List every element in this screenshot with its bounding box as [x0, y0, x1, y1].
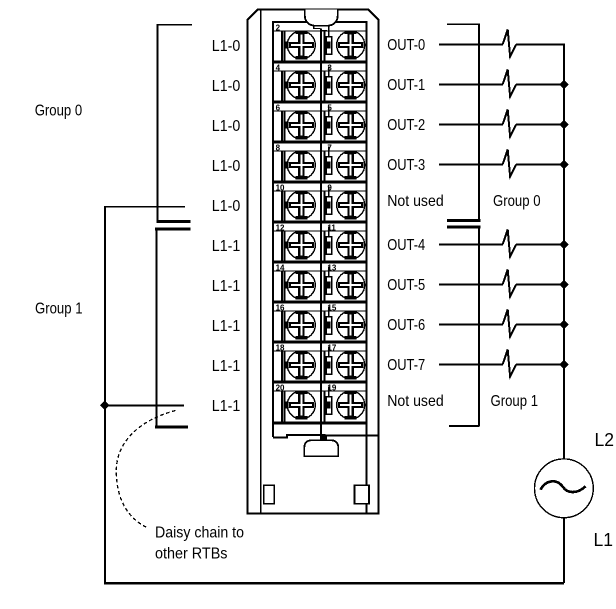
terminal row 6 separators — [273, 222, 366, 231]
wire load 2 to bus — [516, 124, 565, 126]
group 1 right bracket — [447, 227, 481, 426]
svg-text:L1-0: L1-0 — [212, 118, 241, 135]
svg-text:18: 18 — [276, 343, 285, 352]
group 0 right bracket — [447, 23, 481, 220]
bottom dome tab — [304, 440, 338, 456]
svg-text:L1-0: L1-0 — [212, 38, 241, 55]
row 7 left clamp — [282, 271, 287, 302]
row 1 right clamp — [325, 27, 332, 63]
AC sine wave — [541, 481, 586, 492]
screw terminal 11 — [337, 230, 365, 259]
wire OUT-6 — [439, 324, 503, 326]
load L4 squiggle — [503, 230, 516, 257]
svg-text:L1-0: L1-0 — [212, 158, 241, 175]
wire load 6 to bus — [516, 324, 565, 326]
terminal row 1 separators — [273, 30, 366, 32]
screw terminal 6 — [287, 110, 315, 139]
bus junction dot row 7 — [559, 280, 568, 289]
row 3 left clamp — [282, 111, 287, 142]
load L2 squiggle — [503, 110, 516, 137]
keying arch notch at top — [305, 9, 338, 25]
svg-text:12: 12 — [276, 223, 285, 232]
bottom return wire — [104, 582, 564, 585]
left mounting foot — [264, 485, 275, 503]
svg-text:7: 7 — [327, 143, 332, 152]
row 1 left clamp — [282, 31, 287, 62]
svg-text:3: 3 — [327, 63, 332, 72]
svg-text:OUT-7: OUT-7 — [387, 357, 425, 374]
terminal row 10 separators — [273, 382, 366, 391]
svg-text:other RTBs: other RTBs — [155, 546, 228, 563]
wire load 4 to bus — [516, 244, 565, 246]
load L5 squiggle — [503, 270, 516, 297]
row 4 left clamp — [282, 151, 287, 182]
screw terminal 9 — [337, 190, 365, 219]
svg-text:L1: L1 — [594, 530, 614, 550]
row 6 right clamp — [325, 227, 332, 263]
svg-text:Daisy chain to: Daisy chain to — [155, 525, 244, 542]
row 10 right clamp — [325, 387, 332, 423]
svg-text:5: 5 — [327, 103, 332, 112]
screw terminal 3 — [337, 70, 365, 99]
svg-text:Group 0: Group 0 — [493, 193, 541, 210]
terminal row 2 separators — [273, 62, 366, 71]
bus junction dot row 9 — [559, 360, 568, 369]
screw terminal 7 — [337, 150, 365, 179]
svg-text:OUT-2: OUT-2 — [387, 117, 425, 134]
svg-text:L1-1: L1-1 — [212, 398, 241, 415]
svg-text:L1-0: L1-0 — [212, 198, 241, 215]
daisy chain arc — [116, 411, 175, 528]
terminal row 5 separators — [273, 182, 366, 191]
wire OUT-5 — [439, 284, 503, 286]
svg-text:L2: L2 — [595, 430, 615, 450]
svg-text:8: 8 — [276, 143, 281, 152]
divider foot blob — [320, 436, 327, 440]
svg-text:OUT-6: OUT-6 — [387, 317, 425, 334]
svg-text:20: 20 — [276, 383, 285, 392]
load L3 squiggle — [503, 150, 516, 177]
wire row 10 L1-1 — [104, 404, 184, 406]
row 9 left clamp — [282, 351, 287, 382]
bus junction dot row 2 — [559, 80, 568, 89]
svg-text:Group 1: Group 1 — [35, 301, 83, 318]
screw terminal 10 — [287, 190, 315, 219]
row 5 left clamp — [282, 191, 287, 222]
screw terminal 17 — [337, 350, 365, 379]
svg-text:Not used: Not used — [387, 393, 444, 410]
svg-text:L1-1: L1-1 — [212, 238, 241, 255]
terminal row 4 separators — [273, 142, 366, 151]
svg-text:L1-1: L1-1 — [212, 278, 241, 295]
screw terminal 19 — [337, 390, 365, 419]
screw terminal 14 — [287, 270, 315, 299]
load L1 squiggle — [503, 70, 516, 97]
group 0 left bracket — [156, 24, 192, 222]
row 10 left clamp — [282, 391, 287, 422]
svg-text:L1-0: L1-0 — [212, 78, 241, 95]
bus junction dot row 8 — [559, 320, 568, 329]
wire OUT-0 — [439, 44, 503, 46]
daisy chain label — [155, 525, 244, 563]
row 2 left clamp — [282, 71, 287, 102]
bus junction dot row 6 — [559, 240, 568, 249]
terminal row 9 separators — [273, 342, 366, 351]
screw terminal 4 — [287, 70, 315, 99]
screw terminal 20 — [287, 390, 315, 419]
svg-text:16: 16 — [276, 303, 285, 312]
screw terminal 2 — [287, 30, 315, 59]
svg-text:9: 9 — [327, 183, 332, 192]
terminal strip outline — [273, 21, 366, 513]
load L6 squiggle — [503, 310, 516, 337]
screw terminal 8 — [287, 150, 315, 179]
row 8 right clamp — [325, 307, 332, 343]
screw terminal 16 — [287, 310, 315, 339]
left vertical wire — [104, 207, 106, 583]
row 9 right clamp — [325, 347, 332, 383]
bus junction dot row 4 — [559, 160, 568, 169]
junction dot — [100, 401, 110, 411]
row 7 right clamp — [325, 267, 332, 303]
terminal row 7 separators — [273, 262, 366, 271]
L2 bus vertical — [563, 44, 565, 459]
RTB housing outline — [247, 9, 378, 513]
housing ledge below strip — [273, 435, 378, 437]
row 4 right clamp — [325, 147, 332, 183]
load L7 squiggle — [503, 350, 516, 377]
screw terminal 18 — [287, 350, 315, 379]
wire OUT-7 — [439, 364, 503, 366]
svg-text:14: 14 — [276, 263, 285, 272]
wire AC source to bottom — [563, 518, 565, 584]
svg-text:2: 2 — [276, 23, 281, 32]
wire load 3 to bus — [516, 164, 565, 166]
svg-text:OUT-1: OUT-1 — [387, 77, 425, 94]
load L0 squiggle — [503, 30, 516, 57]
wire load 5 to bus — [516, 284, 565, 286]
screw terminal 5 — [337, 110, 365, 139]
bus junction dot row 3 — [559, 120, 568, 129]
screw terminal 1 — [337, 30, 365, 59]
terminal row 3 separators — [273, 102, 366, 111]
keying tab — [314, 26, 327, 31]
svg-text:Group 1: Group 1 — [491, 393, 539, 410]
wire row 5 L1-0 — [104, 206, 185, 208]
wire load 0 to bus — [516, 44, 565, 46]
wire OUT-1 — [439, 84, 503, 86]
svg-text:Not used: Not used — [387, 193, 444, 210]
row 5 right clamp — [325, 187, 332, 223]
wire OUT-2 — [439, 124, 503, 126]
terminal row 8 separators — [273, 302, 366, 311]
right mounting foot — [355, 485, 369, 503]
svg-text:Group 0: Group 0 — [35, 102, 83, 119]
screw terminal 12 — [287, 230, 315, 259]
strip bottom edge — [273, 422, 366, 425]
group 1 left bracket — [155, 229, 191, 427]
svg-text:OUT-5: OUT-5 — [387, 277, 425, 294]
svg-text:OUT-0: OUT-0 — [387, 37, 425, 54]
wire load 7 to bus — [516, 364, 565, 366]
screw terminal 15 — [337, 310, 365, 339]
svg-text:L1-1: L1-1 — [212, 318, 241, 335]
row 6 left clamp — [282, 231, 287, 262]
svg-text:4: 4 — [276, 63, 281, 72]
svg-text:L1-1: L1-1 — [212, 358, 241, 375]
wire OUT-3 — [439, 164, 503, 166]
row 8 left clamp — [282, 311, 287, 342]
svg-text:OUT-3: OUT-3 — [387, 157, 425, 174]
svg-text:6: 6 — [276, 103, 281, 112]
AC source circle — [535, 459, 594, 518]
screw terminal 13 — [337, 270, 365, 299]
svg-text:OUT-4: OUT-4 — [387, 237, 425, 254]
svg-text:10: 10 — [276, 183, 285, 192]
row 3 right clamp — [325, 107, 332, 143]
wire OUT-4 — [439, 244, 503, 246]
row 2 right clamp — [325, 67, 332, 103]
wire load 1 to bus — [516, 84, 565, 86]
